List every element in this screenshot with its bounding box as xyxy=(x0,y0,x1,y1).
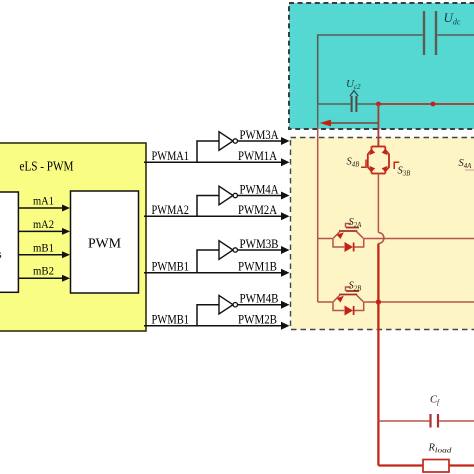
wire Cf left xyxy=(378,420,429,422)
wire bridge to hop xyxy=(377,174,379,233)
wire hop over S2A line xyxy=(378,233,384,244)
wire Uc2 to node xyxy=(358,103,379,105)
arrowhead mB1 xyxy=(62,251,70,258)
arrowhead PWM3A xyxy=(281,137,290,145)
emitter arrow S4B upper xyxy=(368,149,376,157)
arrowhead PWM2B xyxy=(281,322,290,330)
svg-text:PWM3B: PWM3B xyxy=(240,237,279,251)
emitter arrow S3B upper xyxy=(382,149,390,157)
arrowhead mA2 xyxy=(62,228,70,235)
diode D2A xyxy=(345,242,354,252)
diode D2B xyxy=(345,306,354,316)
junction dot node P xyxy=(376,102,381,107)
bridge right branch (S3B) xyxy=(385,147,389,174)
inverter U3 xyxy=(219,241,233,260)
wire mA1 xyxy=(18,208,63,278)
arrowhead PWM1A xyxy=(281,158,290,166)
wire branch to inverter 1 xyxy=(197,141,219,162)
svg-text:PWM2A: PWM2A xyxy=(238,203,277,217)
arrowhead PWM1B xyxy=(281,269,290,277)
current direction arrow xyxy=(330,122,378,124)
svg-text:mB2: mB2 xyxy=(33,264,54,278)
arrowhead PWM3B xyxy=(281,246,290,254)
transistor S2B body xyxy=(339,291,359,295)
wire into bridge xyxy=(377,104,379,147)
capacitor Udc xyxy=(424,11,436,55)
wire PWMA2 main xyxy=(144,215,282,217)
bridge bottom bar xyxy=(372,173,386,175)
wire inverter 4 output xyxy=(238,304,282,306)
gate lead S2B xyxy=(346,287,352,291)
wire left rail (teal section) xyxy=(317,104,319,126)
svg-text:PWM1B: PWM1B xyxy=(238,260,277,274)
emitter arrow S3B lower xyxy=(382,164,390,172)
arrowhead mB2 xyxy=(62,275,70,282)
wire S2A left xyxy=(318,238,333,240)
bridge top bar xyxy=(372,146,386,148)
svg-text:PWM4B: PWM4B xyxy=(240,292,279,306)
stub S4A bridge (cut) xyxy=(465,169,474,171)
gate lead S2A xyxy=(346,224,352,228)
dc-link block (teal dashed box) xyxy=(289,3,474,129)
wire Udc right xyxy=(437,34,474,36)
arrowhead mA1 xyxy=(62,205,70,212)
node dc rail (red) xyxy=(378,103,474,105)
wire load left xyxy=(378,464,423,466)
wire left rail xyxy=(317,126,319,302)
svg-text:PWMB1: PWMB1 xyxy=(152,313,190,327)
inverter U2 xyxy=(219,186,233,205)
wire center rail lower xyxy=(377,244,379,466)
wire Uc2 left xyxy=(318,103,351,105)
wire mA2 xyxy=(18,230,63,232)
gate S4B xyxy=(361,160,366,168)
switch S4B/S3B outline xyxy=(368,147,389,174)
wire inverter 2 output xyxy=(238,195,282,197)
wire S2B right xyxy=(364,301,474,303)
wire inverter 3 output xyxy=(238,249,282,251)
input box (white, cut off at left) xyxy=(0,192,18,292)
eLS-PWM block (yellow box) xyxy=(0,143,146,331)
svg-text:mB1: mB1 xyxy=(33,240,54,254)
wire Udc loop xyxy=(318,35,423,104)
wire mB2 xyxy=(18,277,63,279)
emitter arrow S2B xyxy=(337,294,346,303)
converter block (cream dashed box) xyxy=(291,138,474,330)
emitter arrows S4B/S3B xyxy=(368,149,390,171)
wire PWMB1 main xyxy=(144,272,282,274)
svg-text:eLS - PWM: eLS - PWM xyxy=(20,159,74,174)
arrowhead PWM4B xyxy=(281,301,290,309)
wire inverter 1 output xyxy=(238,140,282,142)
svg-text:PWMA1: PWMA1 xyxy=(152,149,190,163)
wire branch to inverter 4 xyxy=(197,305,219,326)
resistor Rload xyxy=(423,460,449,473)
emitter arrow S4B lower xyxy=(368,164,376,172)
junction dot right xyxy=(431,102,436,107)
bridge left branch (S4B) xyxy=(368,147,372,174)
gate S3B xyxy=(394,162,399,169)
wire load right xyxy=(449,464,474,466)
capacitor Uc2 xyxy=(352,96,357,112)
wire branch to inverter 3 xyxy=(197,250,219,273)
polarity caret Uc2 xyxy=(350,91,358,97)
arrowhead PWM2A xyxy=(281,212,290,220)
svg-text:PWMB1: PWMB1 xyxy=(152,260,190,274)
svg-text:PWM2B: PWM2B xyxy=(238,313,277,327)
wire mB1 xyxy=(18,254,63,256)
diode loop S2A xyxy=(333,239,344,248)
arrowhead PWM4A xyxy=(281,192,290,200)
diode loop S2B xyxy=(333,302,344,311)
capacitor Cf xyxy=(431,414,439,428)
svg-text:PWM3A: PWM3A xyxy=(240,128,279,142)
wire S2A right xyxy=(364,238,474,240)
svg-text:PWM: PWM xyxy=(88,236,121,251)
svg-text:mA1: mA1 xyxy=(33,194,54,208)
svg-text:PWM4A: PWM4A xyxy=(240,182,279,196)
inverter U1 xyxy=(219,132,233,151)
junction dot S2B node xyxy=(376,299,381,304)
transistor S2A body xyxy=(339,228,359,232)
svg-text:PWMA2: PWMA2 xyxy=(152,203,190,217)
inverter U4 xyxy=(219,295,233,314)
emitter arrow S2A xyxy=(337,230,346,239)
wire branch to inverter 2 xyxy=(197,196,219,217)
wire PWMB1 main xyxy=(144,325,282,327)
svg-text:mA2: mA2 xyxy=(33,217,54,231)
wire PWMA1 main xyxy=(144,161,282,163)
PWM box xyxy=(71,191,139,293)
svg-text:PWM1A: PWM1A xyxy=(238,149,277,163)
wire Cf right xyxy=(439,420,474,422)
wire S2B left xyxy=(318,301,333,303)
